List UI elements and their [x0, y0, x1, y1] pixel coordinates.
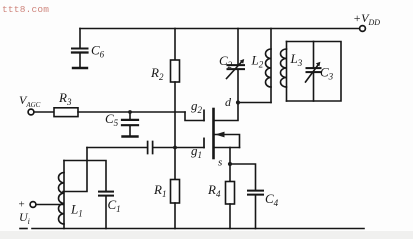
svg-text:+: + — [19, 199, 25, 211]
svg-text:ttt8.com: ttt8.com — [2, 4, 49, 15]
svg-text:s: s — [218, 157, 222, 169]
svg-text:d: d — [225, 95, 232, 109]
